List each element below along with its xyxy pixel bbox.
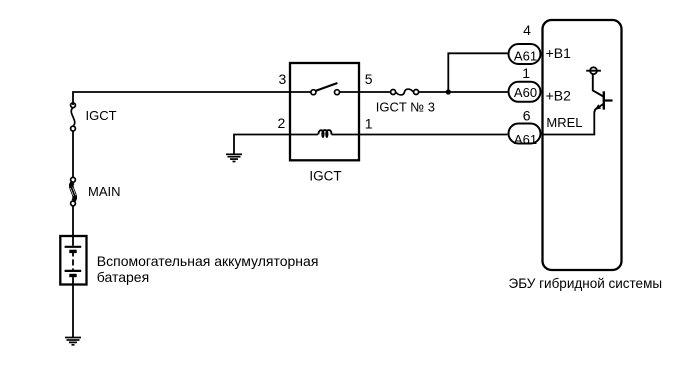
connector A60 (+B2) bbox=[509, 82, 541, 102]
wire MREL to transistor bbox=[542, 112, 595, 135]
svg-text:Вспомогательная аккумуляторная: Вспомогательная аккумуляторная bbox=[97, 253, 319, 269]
wire coil to pin1 and to connector A61 (MREL) bbox=[332, 134, 508, 136]
relay coil bbox=[318, 130, 331, 137]
wire pin2 to coil bbox=[290, 134, 318, 136]
connector A61 (+B1) bbox=[509, 44, 541, 64]
svg-text:3: 3 bbox=[279, 71, 287, 87]
ground (battery) bbox=[65, 338, 81, 345]
wire fuse to connector A60 bbox=[419, 91, 508, 93]
svg-text:+B1: +B1 bbox=[546, 45, 572, 61]
battery (auxiliary) bbox=[60, 236, 86, 285]
svg-text:ЭБУ гибридной системы: ЭБУ гибридной системы bbox=[509, 276, 663, 291]
transistor Q (MREL driver) bbox=[586, 67, 612, 112]
wire pin3 to switch bbox=[290, 91, 311, 93]
svg-text:A61: A61 bbox=[514, 49, 537, 64]
svg-text:5: 5 bbox=[365, 71, 373, 87]
svg-text:IGCT: IGCT bbox=[309, 168, 341, 183]
svg-text:A60: A60 bbox=[514, 85, 537, 100]
svg-text:2: 2 bbox=[278, 115, 286, 131]
wire trunk between fuses bbox=[72, 131, 74, 178]
wire branch up to connector A61 (+B1) bbox=[448, 53, 507, 92]
wire trunk to battery bbox=[72, 206, 74, 237]
switch contact (relay) bbox=[311, 83, 340, 95]
fusible link MAIN bbox=[70, 177, 76, 205]
relay IGCT box bbox=[290, 63, 359, 160]
svg-text:1: 1 bbox=[365, 116, 373, 132]
fuse IGCT № 3 bbox=[391, 89, 419, 95]
svg-text:MAIN: MAIN bbox=[88, 184, 121, 199]
wire top horizontal from battery trunk to relay pin 3 bbox=[73, 92, 290, 105]
junction node bbox=[446, 89, 451, 94]
svg-text:A61: A61 bbox=[514, 132, 537, 147]
ECU box (hybrid system ECU) bbox=[543, 20, 622, 270]
svg-text:IGCT: IGCT bbox=[86, 108, 117, 123]
fuse IGCT bbox=[71, 103, 76, 131]
svg-text:батарея: батарея bbox=[97, 269, 149, 285]
svg-text:MREL: MREL bbox=[546, 115, 582, 130]
connector A61 (MREL) bbox=[509, 124, 541, 144]
svg-text:IGCT № 3: IGCT № 3 bbox=[376, 100, 435, 115]
ground (relay coil) bbox=[226, 135, 290, 162]
svg-text:+B2: +B2 bbox=[546, 87, 572, 103]
wire battery to ground bbox=[72, 285, 74, 338]
svg-text:4: 4 bbox=[523, 22, 531, 38]
svg-text:1: 1 bbox=[522, 65, 530, 81]
wire switch to pin5 and fuse bbox=[339, 91, 390, 93]
svg-text:6: 6 bbox=[523, 107, 531, 123]
